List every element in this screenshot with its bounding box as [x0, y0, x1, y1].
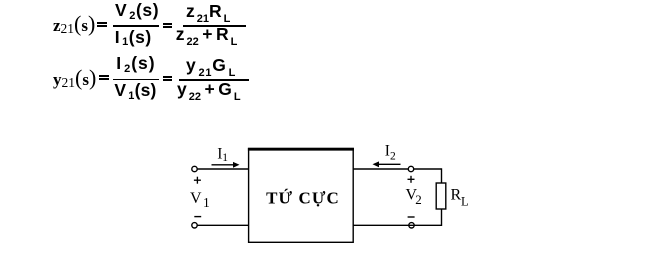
two-port box thick top edge: [248, 148, 354, 151]
svg-text:L: L: [461, 194, 469, 208]
minus sign V2: [408, 216, 415, 218]
terminal node: input top: [192, 166, 197, 171]
svg-text:1: 1: [203, 195, 210, 210]
equals: [163, 76, 173, 81]
lhs z21(s)=: [53, 13, 95, 35]
equals: [97, 22, 107, 27]
terminal node: output bottom: [409, 223, 414, 228]
wire: input top to box: [197, 168, 248, 170]
wire: input bottom to box: [197, 224, 248, 226]
terminal node: output top: [408, 166, 413, 171]
arrow I2 (current out of load, pointing left): [378, 163, 401, 165]
fraction z21 RL / (z22+RL): [186, 3, 230, 23]
wire: box to output bottom: [353, 224, 441, 226]
wire: output top to resistor: [441, 168, 443, 183]
lhs y21(s)=: [53, 67, 96, 89]
equals: [99, 75, 109, 80]
minus sign V1: [194, 216, 201, 218]
two-port box U1: [249, 149, 354, 243]
svg-text:1: 1: [222, 152, 228, 164]
fraction V2(s)/I1(s): [115, 2, 159, 22]
terminal node: input bottom: [192, 223, 197, 228]
plus sign V1: [194, 179, 201, 181]
svg-text:TỨ CỰC: TỨ CỰC: [266, 189, 340, 208]
wire: resistor to output bottom: [441, 209, 443, 226]
wire: box to output top: [353, 168, 441, 170]
equals: [163, 23, 172, 28]
svg-text:V: V: [190, 190, 202, 207]
fraction y21 GL / (y22+GL): [186, 57, 236, 77]
svg-text:R: R: [451, 187, 462, 204]
svg-text:2: 2: [415, 192, 422, 207]
resistor RL: [436, 183, 446, 209]
plus sign V2: [408, 178, 415, 180]
svg-text:2: 2: [390, 150, 396, 162]
fraction I2(s)/V1(s): [116, 55, 155, 75]
arrow I1 (current into box): [212, 164, 235, 166]
